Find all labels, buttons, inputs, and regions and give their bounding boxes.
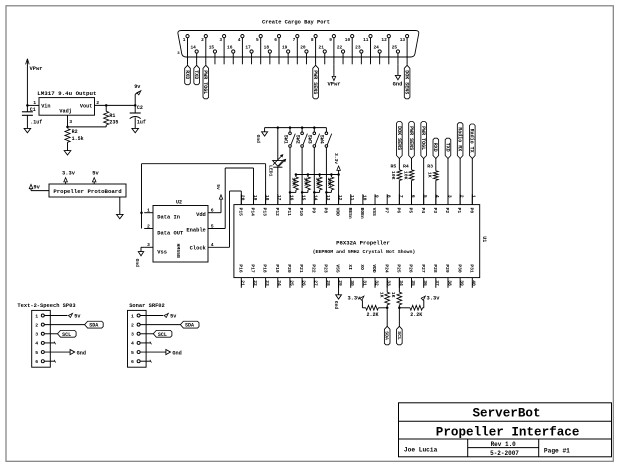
svg-text:17: 17 (276, 195, 282, 201)
svg-text:3.3v: 3.3v (347, 296, 361, 302)
ground below C1 (24, 128, 31, 132)
svg-text:SDA: SDA (185, 323, 194, 329)
svg-text:R4: R4 (403, 163, 409, 169)
ground below C2 (132, 128, 139, 132)
svg-text:VSS: VSS (371, 208, 377, 217)
svg-text:40: 40 (471, 280, 477, 286)
svg-text:37: 37 (434, 280, 440, 286)
svg-text:9: 9 (329, 37, 332, 43)
svg-text:3.3v: 3.3v (62, 170, 76, 176)
svg-text:1uf: 1uf (137, 119, 146, 125)
svg-text:Vin: Vin (41, 104, 50, 110)
ground at SRF02 pin 5 (140, 351, 166, 353)
U2 pin 2 Data OUT (144, 228, 153, 230)
svg-text:3.3v: 3.3v (427, 296, 441, 302)
connector J1 pin 15 (213, 50, 216, 53)
U1 pin 40 P31 (471, 278, 473, 288)
wire VPwr to Vin (27, 104, 39, 106)
U1 pin 39 P30 (459, 278, 461, 288)
svg-text:SW1: SW1 (282, 135, 288, 144)
svg-text:P3: P3 (432, 208, 438, 214)
svg-text:P10: P10 (298, 208, 304, 217)
switch SW1 (289, 126, 292, 129)
supply VPwr at LM317 input (26, 59, 28, 65)
resistor R5 10K (397, 170, 402, 181)
svg-text:SDA: SDA (384, 331, 390, 340)
svg-text:6: 6 (274, 37, 277, 43)
connector J1 pin 2 (204, 35, 207, 38)
net flag PWR SENS to R4 (409, 122, 415, 159)
supply 5v at U2 Vdd (220, 199, 222, 213)
svg-text:VPwr: VPwr (328, 82, 341, 88)
svg-text:1K: 1K (390, 292, 396, 298)
svg-text:LED1: LED1 (268, 165, 274, 177)
stub SP03 pin 4 (44, 342, 55, 344)
svg-text:P19: P19 (274, 264, 280, 273)
connector Text-2-Speech SP03 body (32, 310, 51, 367)
svg-text:4: 4 (238, 37, 241, 43)
svg-text:2: 2 (131, 322, 134, 328)
wire U2 data to U1 P13 (141, 164, 143, 229)
svg-text:10K: 10K (303, 177, 309, 186)
microcontroller U1 P8X32A body (234, 205, 480, 278)
svg-text:4: 4 (211, 242, 214, 248)
svg-text:11: 11 (363, 37, 369, 43)
svg-text:P31: P31 (468, 264, 474, 273)
svg-text:P1: P1 (456, 208, 462, 214)
svg-text:32: 32 (373, 280, 379, 286)
U1 pin 5 P4 (423, 194, 425, 204)
svg-text:P14: P14 (250, 208, 256, 217)
svg-text:P17: P17 (250, 264, 256, 273)
svg-text:25: 25 (392, 44, 398, 50)
svg-text:1: 1 (147, 208, 150, 214)
svg-text:3: 3 (131, 332, 134, 338)
svg-text:3: 3 (35, 332, 38, 338)
connector J1 pin 18 (268, 50, 271, 53)
svg-text:2: 2 (147, 223, 150, 229)
svg-text:26: 26 (300, 280, 306, 286)
svg-text:(EEPROM and 5MHz Crystal Not S: (EEPROM and 5MHz Crystal Not Shown) (313, 249, 416, 255)
net flag PWR TOGL at J1 pin 2 (205, 64, 207, 65)
svg-text:P21: P21 (298, 264, 304, 273)
stub SRF02 pin 4 (140, 342, 151, 344)
connector J1 pin 17 (250, 50, 253, 53)
resistor R4 10K (409, 170, 414, 181)
U1 pin 38 P29 (447, 278, 449, 288)
svg-text:VDD: VDD (371, 264, 377, 273)
wire U2 Enable to U1 P14 (224, 168, 226, 229)
svg-text:Gnd: Gnd (134, 259, 140, 268)
U1 pin 17 P12 (277, 194, 279, 204)
svg-text:1: 1 (131, 313, 134, 319)
U1 pin 25 P20 (289, 278, 291, 288)
U1 pin 19 P14 (252, 194, 254, 204)
svg-text:2: 2 (96, 100, 99, 106)
U1 pin 11 RESn (350, 194, 352, 204)
svg-text:C2: C2 (137, 105, 143, 111)
resistor 2.2K SCL pull-up (399, 307, 410, 309)
connector J1 pin 21 (323, 50, 326, 53)
svg-text:Gnd: Gnd (172, 350, 181, 356)
U1 pin 1 P0 (471, 194, 473, 204)
svg-text:P26: P26 (408, 264, 414, 273)
U2 pin 1 Data IN (144, 212, 153, 214)
svg-text:6: 6 (131, 359, 134, 365)
U1 pin 13 P8 (325, 194, 327, 204)
svg-text:Page #1: Page #1 (544, 447, 570, 454)
svg-text:SW4: SW4 (319, 135, 325, 144)
svg-text:Sonar SRF02: Sonar SRF02 (129, 303, 165, 309)
svg-text:4: 4 (35, 341, 38, 347)
svg-text:P9: P9 (310, 208, 316, 214)
svg-text:Vss: Vss (157, 249, 167, 255)
node junction SDA (386, 307, 389, 310)
svg-text:16: 16 (227, 44, 233, 50)
U1 pin 14 P9 (313, 194, 315, 204)
U1 pin 34 P25 (398, 278, 400, 288)
svg-text:P8: P8 (323, 208, 329, 214)
svg-text:Propeller ProtoBoard: Propeller ProtoBoard (53, 188, 122, 195)
svg-text:Propeller Interface: Propeller Interface (436, 425, 580, 439)
svg-text:12: 12 (381, 37, 387, 43)
supply 3.3v at U1 VDD pin 12 (338, 170, 340, 204)
svg-text:Vdd: Vdd (196, 212, 206, 218)
wire 3.3v pull-up rail (296, 174, 339, 176)
svg-text:13: 13 (325, 195, 331, 201)
svg-text:34: 34 (398, 280, 404, 286)
svg-text:1K: 1K (426, 172, 432, 178)
svg-text:SW2: SW2 (294, 135, 300, 144)
U1 pin 4 P3 (435, 194, 437, 204)
node junction LED on rail (277, 126, 280, 129)
svg-text:5: 5 (211, 223, 214, 229)
supply 5v at SP03 pin 1 (44, 315, 67, 317)
svg-text:P2: P2 (444, 208, 450, 214)
svg-text:27: 27 (313, 280, 319, 286)
net flag SCL below U1 (398, 308, 400, 327)
svg-text:9v: 9v (134, 84, 141, 90)
svg-text:22: 22 (337, 44, 343, 50)
svg-text:SW3: SW3 (307, 135, 313, 144)
svg-text:Radio RX: Radio RX (457, 127, 463, 151)
svg-text:TXD: TXD (444, 143, 450, 152)
svg-text:LM317 9.4u Output: LM317 9.4u Output (37, 90, 96, 97)
svg-text:2.2K: 2.2K (367, 312, 379, 318)
svg-text:.1uf: .1uf (30, 119, 42, 125)
svg-text:20: 20 (300, 44, 306, 50)
U1 pin 30 XI (350, 278, 352, 288)
svg-text:ServerBot: ServerBot (472, 407, 540, 421)
ground at U2 Vss (141, 246, 144, 248)
U2 pin 6 Vdd (208, 212, 221, 214)
node junction Data IN tie (140, 211, 143, 214)
wire ground rail (265, 127, 327, 129)
title block frame (399, 403, 612, 457)
U1 pin 35 P26 (411, 278, 413, 288)
svg-text:5: 5 (256, 37, 259, 43)
svg-text:P28: P28 (432, 264, 438, 273)
svg-text:R2: R2 (72, 129, 78, 135)
net flag SDA below U1 (386, 308, 388, 327)
net flag TXD at J1 pin 14 (196, 64, 198, 65)
svg-text:P12: P12 (274, 208, 280, 217)
svg-text:P25: P25 (395, 264, 401, 273)
svg-text:1K: 1K (379, 292, 385, 298)
svg-text:10: 10 (361, 195, 367, 201)
svg-text:10K: 10K (402, 171, 408, 180)
U1 pin 24 P19 (277, 278, 279, 288)
svg-text:4: 4 (131, 341, 134, 347)
svg-text:18: 18 (264, 44, 270, 50)
svg-text:19: 19 (282, 44, 288, 50)
capacitor C1 .1uf (26, 105, 28, 111)
svg-text:DOK SENS: DOK SENS (396, 126, 402, 150)
svg-text:21: 21 (319, 44, 325, 50)
svg-text:14: 14 (190, 44, 196, 50)
U1 pin 32 VDD (374, 278, 376, 288)
net flag SDA at SRF02 pin 2 (140, 324, 180, 326)
voltage regulator IC1 LM317 body (39, 98, 95, 116)
svg-text:2: 2 (201, 37, 204, 43)
connector J1 pin 19 (287, 50, 290, 53)
stub SP03 pin 6 (44, 360, 55, 362)
ground below R2 (64, 151, 71, 155)
svg-text:Vout: Vout (80, 104, 92, 110)
svg-text:Enable: Enable (186, 228, 205, 234)
svg-text:29: 29 (337, 280, 343, 286)
svg-text:Joe Lucia: Joe Lucia (404, 446, 438, 453)
svg-text:R3: R3 (427, 164, 433, 170)
U1 pin 26 P21 (301, 278, 303, 288)
connector Sonar SRF02 body (128, 310, 147, 367)
connector J1 pin 23 (360, 50, 363, 53)
svg-text:9: 9 (373, 195, 379, 198)
svg-text:24: 24 (276, 280, 282, 286)
resistor R1 235 (105, 105, 107, 111)
U1 pin 8 P7 (386, 194, 388, 204)
svg-text:3: 3 (69, 119, 72, 125)
net flag DOK SENS at J1 pin 13 (406, 64, 408, 65)
supply 3.3v right of SCL pull-up (423, 300, 425, 308)
svg-text:8: 8 (311, 37, 314, 43)
net flag DOK SENS to R5 (397, 122, 403, 159)
svg-text:5v: 5v (170, 313, 177, 319)
svg-text:VPwr: VPwr (30, 66, 43, 72)
svg-text:1: 1 (471, 195, 477, 198)
U1 pin 33 P24 (386, 278, 388, 288)
svg-text:P20: P20 (286, 264, 292, 273)
svg-text:21: 21 (240, 280, 246, 286)
svg-text:P15: P15 (237, 208, 243, 217)
net flag SCL at SRF02 pin 3 (140, 333, 153, 335)
net flag Radio TX to U1 P0 (470, 124, 476, 159)
svg-text:P7: P7 (383, 208, 389, 214)
svg-text:P23: P23 (323, 264, 329, 273)
U1 pin 16 P11 (289, 194, 291, 204)
connector J1 pin 25 (396, 50, 399, 53)
svg-text:6: 6 (35, 359, 38, 365)
svg-text:2.2K: 2.2K (410, 312, 422, 318)
stub SRF02 pin 6 (140, 360, 151, 362)
svg-text:HM55B: HM55B (175, 244, 181, 259)
svg-text:5v: 5v (215, 184, 221, 190)
svg-text:31: 31 (361, 280, 367, 286)
svg-text:SCL: SCL (396, 331, 402, 340)
svg-text:P6: P6 (395, 208, 401, 214)
svg-text:C1: C1 (30, 107, 36, 113)
connector J1 pin 12 (387, 35, 390, 38)
svg-text:R5: R5 (391, 163, 397, 169)
module Propeller ProtoBoard (49, 184, 126, 197)
U1 pin 10 BOEn (362, 194, 364, 204)
svg-text:Gnd: Gnd (333, 301, 339, 310)
switch SW4 (325, 128, 327, 132)
ground at U1 VSS pin 29 (338, 278, 340, 295)
node junction Vout/C2/9v (134, 104, 137, 107)
net flag RXD to R3 (433, 138, 439, 158)
svg-text:19: 19 (252, 195, 258, 201)
svg-text:XO: XO (359, 264, 365, 270)
svg-text:P8X32A Propeller: P8X32A Propeller (336, 240, 390, 247)
net flag TXD to U1 P2 (445, 138, 451, 158)
svg-text:18: 18 (264, 195, 270, 201)
net flag SCL at SP03 pin 3 (44, 333, 57, 335)
connector J1 pin 22 (341, 50, 344, 53)
svg-text:PWR SENS: PWR SENS (312, 70, 318, 94)
resistor pull-up 10K at SW2 (307, 173, 310, 176)
connector J1 pin 24 (378, 50, 381, 53)
svg-text:XI: XI (347, 264, 353, 270)
ground at J1 pin 25 (397, 64, 399, 75)
connector J1 pin 13 (406, 35, 409, 38)
svg-text:3: 3 (147, 242, 150, 248)
svg-text:7: 7 (293, 37, 296, 43)
svg-text:Gnd: Gnd (255, 135, 261, 144)
svg-text:P18: P18 (262, 264, 268, 273)
wire U2 Clock to U1 P15 (229, 191, 231, 247)
svg-text:SCL: SCL (158, 332, 167, 338)
resistor pull-up 10K at SW3 (318, 173, 321, 176)
connector J1 pin 14 (195, 50, 198, 53)
ground at switch rail (264, 128, 266, 132)
svg-text:35: 35 (410, 280, 416, 286)
U1 pin 23 P18 (265, 278, 267, 288)
connector J1 pin 5 (259, 35, 262, 38)
switch SW3 (313, 126, 316, 129)
U1 pin 27 P22 (313, 278, 315, 288)
compass module U2 HM55B body (153, 206, 208, 263)
svg-text:22: 22 (252, 280, 258, 286)
svg-text:Gnd: Gnd (393, 81, 403, 87)
resistor R3 1K (433, 171, 438, 181)
svg-text:24: 24 (373, 44, 379, 50)
svg-text:TXD: TXD (193, 70, 199, 79)
svg-text:PWR TOGL: PWR TOGL (420, 126, 426, 150)
svg-text:15: 15 (300, 195, 306, 201)
svg-text:RXD: RXD (184, 70, 190, 79)
U1 pin 37 P28 (435, 278, 437, 288)
U2 pin 3 Vss (144, 246, 153, 248)
svg-text:8: 8 (386, 195, 392, 198)
svg-text:P30: P30 (456, 264, 462, 273)
svg-text:1: 1 (35, 313, 38, 319)
svg-text:Gnd: Gnd (77, 350, 86, 356)
svg-text:11: 11 (349, 195, 355, 201)
svg-text:PWR TOGL: PWR TOGL (202, 70, 208, 94)
svg-text:9v: 9v (33, 184, 40, 190)
resistor pull-up 10K at SW4 (330, 173, 333, 176)
connector J1 pin 4 (241, 35, 244, 38)
svg-text:VSS: VSS (335, 264, 341, 273)
svg-text:12: 12 (337, 195, 343, 201)
svg-text:3.3v: 3.3v (333, 153, 339, 164)
svg-text:1: 1 (33, 100, 36, 106)
svg-text:2: 2 (459, 195, 465, 198)
svg-text:28: 28 (325, 280, 331, 286)
svg-text:SDA: SDA (89, 323, 98, 329)
svg-text:P11: P11 (286, 208, 292, 217)
svg-text:P13: P13 (262, 208, 268, 217)
U1 pin 15 P10 (301, 194, 303, 204)
svg-text:6: 6 (211, 208, 214, 214)
U1 pin 18 P13 (265, 194, 267, 204)
node junction SCL (398, 307, 401, 310)
svg-text:Create Cargo Bay Port: Create Cargo Bay Port (262, 19, 330, 25)
connector J1 pin 11 (369, 35, 372, 38)
U1 pin 12 VDD (338, 194, 340, 204)
svg-text:14: 14 (313, 195, 319, 201)
net flag PWR TOGL to U1 P4 (421, 122, 427, 159)
svg-text:5: 5 (35, 350, 38, 356)
svg-text:10: 10 (345, 37, 351, 43)
svg-text:10K: 10K (390, 171, 396, 180)
svg-text:VDD: VDD (335, 208, 341, 217)
svg-text:PWR SENS: PWR SENS (408, 126, 414, 150)
supply 9v at regulator output (134, 94, 136, 105)
connector J1 DB25 shell outline (178, 31, 419, 58)
U1 pin 7 P6 (398, 194, 400, 204)
svg-text:235: 235 (109, 119, 118, 125)
connector J1 pin 1 (186, 35, 189, 38)
svg-text:P4: P4 (420, 208, 426, 214)
connector J1 pin 10 (351, 35, 354, 38)
svg-text:BOEn: BOEn (359, 208, 365, 219)
svg-text:10K: 10K (326, 177, 332, 186)
resistor 1K series SDA at U1 P24 (386, 278, 388, 293)
svg-text:6: 6 (410, 195, 416, 198)
net flag SDA at SP03 pin 2 (44, 324, 84, 326)
connector J1 pin 16 (232, 50, 235, 53)
ground below ProtoBoard (119, 197, 121, 214)
svg-text:16: 16 (288, 195, 294, 201)
svg-text:3: 3 (219, 37, 222, 43)
svg-text:15: 15 (209, 44, 215, 50)
svg-text:U1: U1 (481, 236, 487, 242)
svg-text:RESn: RESn (347, 208, 353, 219)
svg-text:10K: 10K (291, 177, 297, 186)
svg-text:P24: P24 (383, 264, 389, 273)
svg-text:2: 2 (35, 322, 38, 328)
U1 pin 21 P16 (240, 278, 242, 288)
svg-text:5-2-2007: 5-2-2007 (490, 450, 519, 457)
svg-text:5: 5 (422, 195, 428, 198)
svg-text:3: 3 (446, 195, 452, 198)
U1 pin 36 P27 (423, 278, 425, 288)
U1 pin 6 P5 (411, 194, 413, 204)
svg-text:5v: 5v (74, 313, 81, 319)
U1 pin 31 XO (362, 278, 364, 288)
